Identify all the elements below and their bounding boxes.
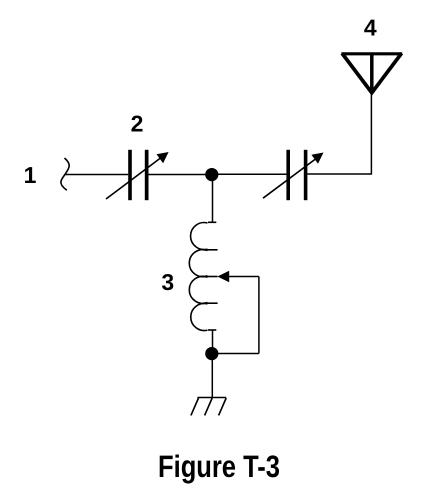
svg-text:2: 2 <box>131 111 144 137</box>
inductor tap arrowhead <box>217 271 229 283</box>
svg-text:1: 1 <box>24 162 37 188</box>
right variable capacitor left plate <box>286 150 290 200</box>
wire from capacitor 2 to junction <box>149 174 213 176</box>
svg-text:3: 3 <box>161 269 174 295</box>
wire from node 1 to capacitor 2 <box>65 174 128 176</box>
capacitor C2 variable arrow <box>106 158 161 199</box>
wire from bottom junction to ground <box>211 354 213 398</box>
capacitor C2 (variable) left plate <box>128 150 132 200</box>
capacitor C2 (variable) right plate <box>145 150 149 200</box>
right variable capacitor right plate <box>304 150 308 200</box>
wire from junction down to inductor 3 <box>212 175 214 223</box>
right variable capacitor arrow <box>263 159 316 198</box>
ground symbol <box>191 398 226 416</box>
junction node dot (top) <box>205 168 218 181</box>
junction node dot (bottom) <box>205 347 218 360</box>
wire from right capacitor to antenna corner <box>307 173 371 175</box>
svg-text:Figure T-3: Figure T-3 <box>158 449 280 484</box>
antenna symbol (4) <box>341 53 402 93</box>
svg-text:4: 4 <box>364 15 377 41</box>
wire from junction to right capacitor <box>212 173 287 175</box>
tap wire right <box>228 276 259 278</box>
wire from coil bottom to bottom junction <box>212 330 214 354</box>
vertical wire up to antenna <box>370 92 372 175</box>
tap wire down <box>258 277 260 354</box>
inductor L3 coil (4 turns) <box>189 222 217 330</box>
tap wire to bottom junction <box>212 353 259 355</box>
wire break squiggle at node 1 <box>61 158 69 190</box>
